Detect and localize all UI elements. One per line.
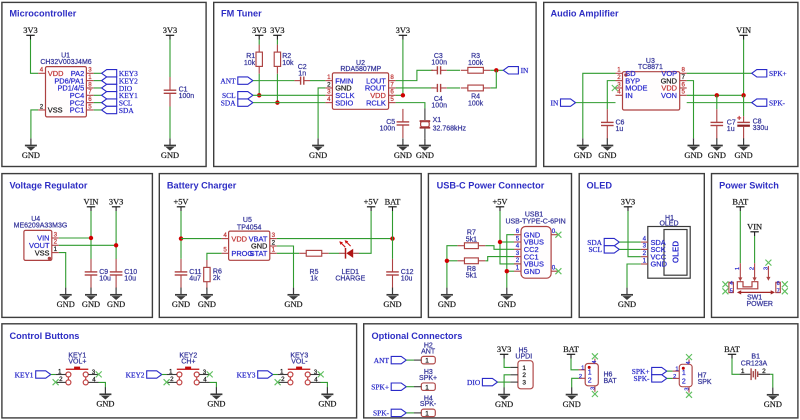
wire U1 pin to SDA flag — [94, 109, 102, 111]
wire U2 LOUT to C3 — [396, 70, 433, 80]
net flag SPK+ — [752, 69, 787, 78]
svg-text:2: 2 — [54, 239, 58, 246]
net flag IN (FM output) — [503, 66, 529, 75]
svg-text:SPK-: SPK- — [373, 409, 390, 418]
section box Voltage Regulator — [2, 174, 153, 318]
wire 3V3 to U2 VDD — [402, 40, 404, 96]
connector H6 BAT body — [579, 359, 618, 392]
op-amp U4 ME6209A33M3G body — [14, 216, 68, 261]
capacitor C3 100n — [431, 53, 447, 74]
U3 pin 1 SD — [616, 67, 636, 78]
wire U3 BYP to C6 — [607, 81, 615, 110]
net flag SDA (OLED) — [587, 238, 619, 247]
ground (U2 GND) — [309, 138, 327, 160]
resistor R6 2k — [204, 260, 222, 289]
wire U3 SD pin to GND — [583, 73, 616, 138]
battery B1 CR123A — [740, 354, 771, 380]
wire BAT down to C12 — [392, 211, 394, 259]
U3 pin 5 VON — [661, 89, 687, 100]
switch SW1 POWER — [729, 263, 780, 308]
wire U5 VDD to +5V line — [181, 238, 222, 240]
U1 pin 6 PC2 — [70, 96, 94, 107]
no-connect X on U3 MODE — [612, 85, 618, 91]
no-connect X on SW1 pin 4 — [722, 281, 728, 287]
power flag 3V3 (H5) — [497, 345, 511, 359]
svg-text:3V3: 3V3 — [252, 26, 266, 35]
svg-text:GND: GND — [438, 300, 456, 309]
svg-text:100k: 100k — [468, 60, 484, 67]
power flag BAT (charger) — [385, 198, 401, 212]
svg-text:100k: 100k — [468, 100, 484, 107]
svg-text:1: 1 — [58, 369, 62, 376]
wire C1 to GND — [169, 107, 171, 139]
svg-text:3: 3 — [92, 369, 96, 376]
svg-text:GND: GND — [318, 400, 336, 409]
svg-text:3: 3 — [54, 231, 58, 238]
svg-text:ME6209A33M3G: ME6209A33M3G — [14, 222, 68, 229]
push button KEY2 CH+ — [167, 353, 210, 385]
svg-text:OLED: OLED — [587, 180, 613, 190]
svg-text:1: 1 — [516, 265, 520, 272]
ground (KEY2) — [207, 387, 225, 409]
wire KEY1 pin 4 to GND — [99, 382, 106, 387]
wire 3V3 to R1 — [258, 40, 260, 45]
wire U1 pin to SCL flag — [94, 102, 102, 104]
U1 pin 1 PD6/PA1 — [54, 74, 93, 85]
svg-text:4: 4 — [643, 235, 647, 242]
svg-text:SDA: SDA — [119, 106, 134, 115]
resistor R3 100k — [461, 53, 491, 73]
wire X1 to GND — [424, 132, 426, 139]
svg-text:3: 3 — [203, 369, 207, 376]
svg-text:+5V: +5V — [364, 198, 379, 207]
wire ANT to C2 — [253, 80, 294, 82]
wire U4 VIN pin to VIN line — [59, 237, 91, 239]
ground (R6) — [198, 288, 216, 310]
svg-text:OLED: OLED — [672, 241, 681, 263]
svg-text:ANT: ANT — [421, 348, 436, 355]
svg-text:SPK+: SPK+ — [419, 375, 437, 382]
U4 pin 3 VIN — [37, 231, 59, 242]
svg-text:6: 6 — [681, 81, 685, 88]
no-connect X on H7 pin 4 — [686, 354, 692, 360]
svg-text:1k: 1k — [310, 275, 318, 282]
svg-text:2: 2 — [762, 368, 766, 375]
svg-text:3: 3 — [617, 81, 621, 88]
svg-text:GND: GND — [416, 151, 434, 160]
svg-text:2: 2 — [750, 267, 756, 270]
svg-text:GND: GND — [684, 151, 702, 160]
power flag VIN (switch) — [747, 223, 762, 237]
svg-text:3: 3 — [88, 67, 92, 74]
svg-text:8: 8 — [681, 67, 685, 74]
svg-text:4: 4 — [327, 96, 331, 103]
wire R7 left to GND line — [447, 246, 458, 288]
svg-text:1: 1 — [425, 384, 429, 391]
svg-text:KEY2: KEY2 — [126, 370, 145, 379]
section box Microcontroller — [2, 2, 206, 166]
USB1 pin 3 CC1 — [514, 250, 539, 261]
power flag BAT (H6) — [563, 345, 579, 359]
U2 pin 1 FMIN — [325, 74, 353, 85]
capacitor C1 100n — [164, 77, 195, 107]
svg-text:7: 7 — [777, 288, 780, 294]
U4 pin 1 VSS — [35, 246, 59, 257]
wire 3V3 to U1 VDD pin 4 — [31, 40, 39, 74]
wire SCL to U2 SCLK — [253, 94, 325, 96]
wire +5V down to VBUS pins — [500, 211, 521, 264]
U2 pin 4 SDIO — [325, 96, 353, 107]
svg-text:100n: 100n — [179, 93, 195, 100]
USB1 pin 4 CC2 — [514, 243, 539, 254]
wire C3 to R3 — [447, 69, 460, 71]
svg-text:3: 3 — [522, 380, 526, 387]
ground (X1) — [416, 138, 434, 160]
svg-text:SPK-: SPK- — [633, 374, 650, 383]
ground (C11) — [172, 288, 190, 310]
no-connect X on SW1 pin 7 — [782, 288, 788, 294]
no-connect X on KEY3 pin 3 — [318, 371, 324, 377]
svg-text:U5: U5 — [243, 217, 252, 224]
svg-text:10k: 10k — [244, 60, 256, 67]
U2 pin 2 GND — [325, 81, 351, 92]
svg-text:7: 7 — [681, 74, 685, 81]
ground (H6) — [563, 387, 581, 409]
no-connect X on KEY3 pin 2 — [275, 379, 281, 385]
junction R2/SDA — [275, 100, 279, 104]
svg-text:1: 1 — [682, 370, 686, 377]
U2 pin 6 VDD — [370, 89, 395, 100]
ground (C9) — [82, 288, 100, 310]
U5 pin 4 VDD — [222, 232, 247, 243]
svg-text:1: 1 — [169, 369, 173, 376]
svg-text:8: 8 — [88, 81, 92, 88]
net flag ANT — [220, 76, 253, 85]
wire KEY1 to button pin 1 — [51, 374, 56, 376]
junction VDD/C7 — [715, 93, 719, 97]
svg-text:100n: 100n — [380, 126, 396, 133]
svg-text:1: 1 — [425, 358, 429, 365]
svg-text:3: 3 — [643, 243, 647, 250]
connector H2 ANT — [414, 343, 436, 365]
svg-text:1: 1 — [617, 67, 621, 74]
U1 pin 8 PD1/4/5 — [57, 81, 93, 92]
wire SCL to OLED — [619, 248, 641, 250]
svg-text:DIO: DIO — [467, 378, 481, 387]
svg-text:BAT: BAT — [724, 345, 740, 354]
svg-text:3: 3 — [763, 267, 769, 270]
net flag SPK+ (H7) — [632, 367, 667, 376]
net flag KEY1 — [15, 370, 51, 379]
ground (H5) — [495, 387, 513, 409]
svg-text:3: 3 — [327, 89, 331, 96]
U2 pin 5 RCLK — [366, 96, 396, 107]
junction VDD/VIN/C8 — [741, 93, 745, 97]
power flag VIN (audio) — [736, 26, 751, 40]
svg-text:Power Switch: Power Switch — [719, 180, 779, 190]
ground (KEY3) — [318, 387, 336, 409]
svg-text:4: 4 — [40, 67, 44, 74]
svg-text:2: 2 — [281, 376, 285, 383]
USB1 pin 5 VBUS — [514, 235, 544, 246]
svg-text:5: 5 — [88, 103, 92, 110]
U5 pin 5 PROG — [222, 247, 254, 258]
svg-text:Optional Connectors: Optional Connectors — [372, 331, 463, 341]
connector H1 OLED body — [648, 215, 690, 278]
ground (USB) — [498, 288, 516, 310]
section box Audio Amplifier — [544, 2, 798, 166]
svg-text:2: 2 — [170, 376, 174, 383]
section box Optional Connectors — [364, 324, 798, 418]
svg-text:2k: 2k — [213, 275, 221, 282]
svg-text:0: 0 — [552, 228, 556, 235]
power flag 3V3 (regulator out) — [109, 198, 123, 212]
svg-text:5k1: 5k1 — [466, 273, 477, 280]
svg-text:GND: GND — [524, 267, 540, 276]
svg-text:6: 6 — [88, 96, 92, 103]
USB1 shell pin 0 top — [551, 228, 561, 238]
svg-text:BAT: BAT — [563, 345, 579, 354]
svg-text:3V3: 3V3 — [23, 26, 37, 35]
wire SPK- to H4 — [406, 412, 414, 414]
U3 pin 8 VOP — [661, 67, 686, 78]
svg-text:4: 4 — [592, 360, 598, 363]
svg-text:Audio Amplifier: Audio Amplifier — [551, 8, 619, 18]
connector H7 SPK body — [673, 359, 712, 392]
ground (C6) — [598, 138, 616, 160]
svg-text:GND: GND — [574, 151, 592, 160]
svg-text:USB-TYPE-C-6PIN: USB-TYPE-C-6PIN — [505, 219, 565, 226]
wire +5V to VBUS pin 5 — [500, 241, 514, 243]
wire 3V3 to R2 — [276, 40, 278, 45]
svg-text:GND: GND — [735, 151, 753, 160]
svg-text:3V3: 3V3 — [163, 26, 177, 35]
wire KEY2 to button pin 1 — [162, 374, 167, 376]
svg-text:GND: GND — [651, 260, 667, 269]
power flag +5V (charger in) — [174, 198, 189, 212]
H1 pin 3 SCK — [641, 243, 666, 254]
svg-text:10u: 10u — [124, 276, 136, 283]
svg-text:CH+: CH+ — [181, 359, 195, 366]
capacitor C5 100n — [380, 109, 410, 138]
svg-text:GND: GND — [598, 151, 616, 160]
H1 pin 2 VCC — [641, 250, 667, 261]
wire U3 GND pin to GND — [687, 81, 694, 139]
svg-text:8: 8 — [390, 74, 394, 81]
wire BAT to B1 — [732, 359, 740, 375]
wire U1 pin to KEY3 flag — [94, 72, 102, 74]
connector H5 UPDI body — [510, 348, 533, 389]
svg-text:ANT: ANT — [220, 76, 236, 85]
USB1 pin 1 GND — [514, 265, 540, 276]
wire R7 to CC2 — [485, 246, 514, 250]
op-amp U5 TP4054 body — [229, 217, 270, 261]
no-connect X on KEY1 pin 2 — [53, 379, 59, 385]
svg-text:UPDI: UPDI — [515, 353, 532, 360]
capacitor C6 1u — [601, 109, 625, 139]
svg-text:VSS: VSS — [35, 248, 50, 257]
svg-text:SPK+: SPK+ — [371, 383, 389, 392]
svg-text:5: 5 — [730, 288, 733, 294]
net flag KEY2 — [126, 370, 162, 379]
U1 pin 7 PC4 — [70, 89, 94, 100]
section box USB-C Power Connector — [428, 174, 571, 318]
op-amp U1 CH32V003J4M6 body — [40, 52, 91, 117]
U5 pin 3 VBAT — [249, 232, 277, 243]
net flag SPK- (H7) — [633, 374, 666, 383]
junction VBAT/BAT — [390, 236, 394, 240]
svg-text:100n: 100n — [431, 59, 447, 66]
svg-text:VDD: VDD — [231, 234, 247, 243]
junction VIN — [89, 236, 93, 240]
USB1 pin 2 VBUS — [514, 257, 544, 268]
power flag +5V (LED) — [364, 198, 379, 212]
no-connect X on SW1 pin 3 — [765, 260, 771, 266]
wire U5 PROG to R6 — [207, 253, 222, 260]
power flag 3V3 (C1) — [163, 26, 177, 40]
svg-text:GND: GND — [57, 300, 75, 309]
wire U2 GND pin to GND — [318, 88, 325, 138]
connector H3 SPK+ — [414, 369, 437, 391]
wire U1 pin to DIO flag — [94, 87, 102, 89]
svg-text:GND: GND — [495, 400, 513, 409]
svg-text:1: 1 — [735, 267, 741, 270]
svg-text:GND: GND — [207, 400, 225, 409]
capacitor C12 10u — [386, 259, 413, 288]
power flag BAT (B1) — [724, 345, 740, 359]
svg-text:POWER: POWER — [746, 301, 772, 308]
ground (C5) — [394, 138, 412, 160]
wire 3V3 to H5 pin 1 — [504, 359, 510, 368]
no-connect X on SW1 pin 6 — [782, 281, 788, 287]
junction R3/R4 — [494, 68, 498, 72]
svg-text:PC1: PC1 — [70, 106, 84, 115]
wire BAT to SW1 pin 1 — [739, 211, 741, 263]
svg-text:3: 3 — [591, 387, 597, 390]
svg-text:GND: GND — [383, 300, 401, 309]
power flag 3V3 (U1 VDD) — [23, 26, 37, 40]
U3 pin 3 MODE — [616, 81, 648, 92]
wire R3 to IN flag — [490, 69, 503, 71]
wire DIO to H5 pin 3 — [498, 381, 511, 383]
wire U2 VDD pin to 3V3 line — [396, 94, 403, 96]
svg-text:3: 3 — [272, 232, 276, 239]
svg-text:VIN: VIN — [736, 26, 751, 35]
push button KEY3 VOL- — [278, 353, 321, 385]
svg-text:CR123A: CR123A — [741, 361, 768, 368]
wire KEY3 pin 4 to GND — [321, 382, 328, 387]
svg-text:Battery Charger: Battery Charger — [167, 180, 237, 190]
wire OLED GND pin to GND — [627, 264, 641, 288]
wire 3V3 down — [115, 211, 117, 259]
op-amp U2 RDA5807MP body — [332, 60, 388, 110]
U5 pin 2 GND — [251, 239, 277, 250]
resistor R5 1k — [299, 250, 329, 282]
net flag KEY3 — [102, 69, 138, 78]
wire U4 VSS to GND — [59, 253, 66, 288]
svg-text:GND: GND — [309, 151, 327, 160]
svg-text:SCL: SCL — [588, 245, 602, 254]
wire U3 VDD to C7/C8 — [687, 94, 744, 96]
svg-text:VON: VON — [661, 91, 677, 100]
ground (C10) — [107, 288, 125, 310]
net flag SCL — [222, 91, 253, 100]
wire VIN down to VDD line — [743, 40, 745, 96]
section box Control Buttons — [2, 324, 357, 418]
U3 pin 2 BYP — [616, 74, 641, 85]
wire U3 VON to SPK- — [687, 102, 752, 104]
U2 pin 7 ROUT — [365, 81, 396, 92]
capacitor C11 4u7 — [175, 259, 202, 288]
ground (R7/R8) — [438, 288, 456, 310]
svg-text:2: 2 — [327, 81, 331, 88]
wire USB GND pin1 — [507, 270, 514, 272]
wire SPK+ to H3 — [406, 386, 414, 388]
wire U2 ROUT to C4 — [396, 87, 435, 89]
wire R5 to LED1 — [329, 252, 339, 254]
H1 pin 1 GND — [641, 257, 667, 268]
junction VDD/C5 — [401, 93, 405, 97]
power flag BAT (switch) — [732, 198, 748, 212]
net flag DIO — [102, 84, 133, 93]
svg-text:10k: 10k — [282, 60, 294, 67]
power flag 3V3 (R2) — [270, 26, 284, 40]
svg-text:GND: GND — [284, 300, 302, 309]
wire VIN down — [90, 211, 92, 259]
svg-text:6: 6 — [516, 228, 520, 235]
U1 pin 2 VSS — [38, 103, 62, 114]
wire U5 VBAT to BAT line — [277, 238, 393, 240]
wire U3 VOP to SPK+ — [687, 72, 752, 74]
ground (U1 VSS) — [22, 138, 40, 160]
net flag SCL — [102, 98, 133, 107]
capacitor C4 100n — [431, 84, 447, 110]
junction +5V/VBUS — [498, 240, 502, 244]
wire SDA to U2 SDIO — [253, 102, 325, 104]
svg-text:5: 5 — [390, 96, 394, 103]
svg-text:1n: 1n — [298, 71, 306, 78]
wire R4 up to R3/IN junction — [490, 70, 496, 88]
svg-text:SPK-: SPK- — [769, 98, 786, 107]
wire U5 STAT to R5 — [277, 252, 299, 254]
svg-text:4u7: 4u7 — [189, 276, 201, 283]
svg-text:VOL+: VOL+ — [68, 359, 86, 366]
svg-text:2: 2 — [40, 103, 44, 110]
wire 3V3 to OLED VCC — [628, 211, 641, 257]
svg-text:GND: GND — [96, 400, 114, 409]
svg-text:TP4054: TP4054 — [237, 225, 262, 232]
net flag SPK+ — [371, 383, 406, 392]
svg-text:6: 6 — [777, 281, 780, 287]
U3 pin 4 IN — [616, 89, 633, 100]
U5 pin 1 STAT — [250, 247, 277, 258]
svg-text:GND: GND — [618, 300, 636, 309]
svg-text:3V3: 3V3 — [396, 26, 410, 35]
ground (C8) — [735, 138, 753, 160]
svg-text:STAT: STAT — [250, 249, 268, 258]
svg-text:GND: GND — [498, 300, 516, 309]
net flag KEY2 — [102, 76, 138, 85]
svg-text:GND: GND — [82, 300, 100, 309]
svg-text:5: 5 — [516, 235, 520, 242]
power flag 3V3 (OLED) — [621, 198, 635, 212]
junction R1/SCL — [257, 93, 261, 97]
svg-text:GND: GND — [394, 151, 412, 160]
svg-text:SPK: SPK — [698, 379, 712, 386]
section box Battery Charger — [159, 174, 421, 318]
svg-text:1u: 1u — [727, 126, 735, 133]
svg-text:1: 1 — [588, 369, 592, 376]
